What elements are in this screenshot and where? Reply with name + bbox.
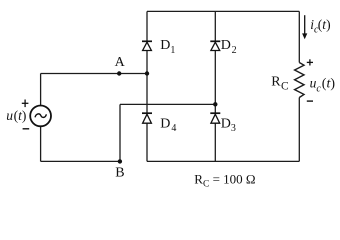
svg-text:D1: D1 (160, 38, 175, 56)
wire middle (B to D3 junction) (120, 103, 215, 105)
wire D2 to node B junction and D3 (214, 51, 216, 114)
wire B riser (119, 104, 121, 161)
wire source bottom riser (40, 126, 42, 161)
wire right branch lower (resistor to bottom rail) (298, 98, 300, 162)
current arrow ic (302, 15, 307, 39)
wire bottom rail (147, 160, 299, 162)
diode D4 symbol (142, 113, 152, 123)
wire D1 branch top (top rail to D1) (146, 11, 148, 41)
svg-text:RC: RC (271, 74, 289, 92)
svg-text:(t): (t) (322, 77, 336, 92)
junction dot D2-D3-B (213, 102, 217, 106)
junction dot D1-A (145, 71, 149, 75)
wire D2 branch top (top rail to D2) (214, 11, 216, 41)
wire D1 to node A junction, down through crossing to D4 (146, 51, 148, 114)
svg-text:(t): (t) (14, 108, 27, 123)
source minus sign (23, 128, 30, 130)
svg-text:B: B (115, 166, 124, 181)
wire D4 to bottom rail (146, 123, 148, 161)
wire right branch upper (to resistor) (298, 11, 300, 62)
svg-text:D4: D4 (160, 116, 176, 134)
wire bottom left (source to B corner) (41, 160, 120, 162)
svg-text:RC = 100 Ω: RC = 100 Ω (194, 171, 255, 189)
resistor plus sign (307, 59, 313, 65)
wire source top riser (40, 74, 42, 106)
node B junction dot (118, 159, 122, 163)
resistor minus sign (307, 100, 313, 102)
diode D3 symbol (210, 113, 220, 123)
wire node A horizontal (41, 73, 147, 75)
wire D3 to bottom rail (214, 123, 216, 161)
svg-text:u: u (6, 108, 13, 123)
svg-text:A: A (115, 55, 126, 70)
svg-text:D3: D3 (221, 116, 236, 134)
resistor RC zigzag (295, 63, 304, 98)
svg-text:uc: uc (310, 76, 322, 95)
wire top rail (147, 10, 299, 12)
diode D2 symbol (210, 41, 220, 50)
svg-text:D2: D2 (221, 38, 237, 56)
source U1 circle (30, 106, 51, 127)
source plus sign (22, 100, 29, 108)
svg-text:(t): (t) (318, 17, 331, 32)
node A junction dot (117, 71, 121, 75)
diode D1 symbol (142, 41, 152, 50)
source sine symbol (35, 114, 46, 118)
